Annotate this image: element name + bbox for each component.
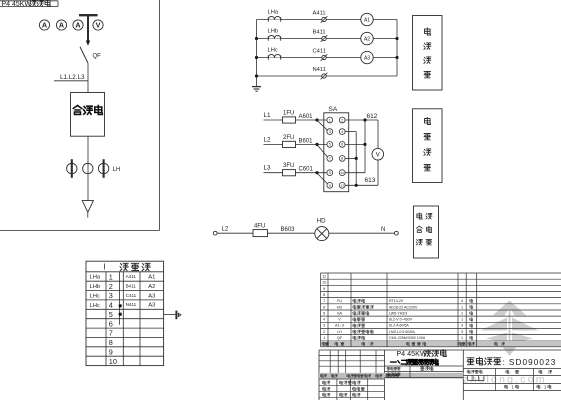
inverter U1 (变频器) — [71, 93, 105, 137]
svg-text:A3: A3 — [364, 56, 370, 62]
table header I 端子排 — [104, 263, 151, 272]
svg-text:3: 3 — [109, 291, 113, 300]
svg-text:6: 6 — [323, 305, 325, 309]
annotation box: 电源合闸指示 — [414, 206, 439, 258]
BOM row 9 — [323, 287, 325, 291]
svg-text:612: 612 — [367, 113, 378, 120]
node L1 — [264, 112, 272, 119]
wire net 612 (contact 2 to voltmeter) — [345, 119, 378, 121]
svg-text:2FU: 2FU — [283, 135, 294, 141]
wire: left common bus of CT secondaries — [256, 20, 258, 87]
wire B411 row — [257, 38, 398, 40]
svg-text:LHb: LHb — [268, 29, 279, 35]
svg-text:7: 7 — [109, 329, 113, 338]
BOM row 1 — [323, 336, 473, 340]
drawing subtitle 一、二次原理接线图 — [391, 359, 439, 365]
svg-text:A1: A1 — [364, 18, 370, 24]
svg-text:QF: QF — [93, 54, 102, 60]
fuse 2FU — [283, 141, 296, 147]
svg-text:9: 9 — [323, 287, 325, 291]
wire A411 row — [257, 19, 398, 21]
svg-text:C411: C411 — [126, 293, 137, 298]
svg-text:V: V — [96, 21, 101, 30]
label N411 — [313, 67, 326, 73]
svg-text:V: V — [338, 318, 341, 322]
label LHb — [268, 29, 279, 35]
wire B603 row — [217, 232, 394, 234]
PE ground (rotated) — [176, 311, 180, 320]
svg-text:A411: A411 — [126, 274, 137, 279]
SA contact pin 5 — [327, 142, 333, 148]
terminal 4 row — [90, 301, 156, 310]
svg-text:4: 4 — [341, 130, 343, 134]
wire C601 — [264, 172, 328, 174]
terminal strip table I 端子排 — [86, 261, 164, 365]
wire A601 — [264, 119, 328, 121]
svg-text:4: 4 — [323, 318, 325, 322]
terminal B411 — [321, 35, 328, 42]
label C601 — [299, 167, 314, 173]
svg-text:5: 5 — [323, 311, 325, 315]
svg-text:11: 11 — [328, 184, 331, 188]
ammeter A — [56, 20, 66, 30]
label A601 — [299, 114, 314, 120]
SA contact pin 8 — [339, 156, 345, 162]
svg-text:V: V — [376, 152, 380, 158]
label LHc — [268, 48, 278, 54]
svg-text:2: 2 — [341, 118, 343, 122]
svg-text:10: 10 — [340, 171, 344, 175]
svg-text:A1: A1 — [148, 275, 155, 281]
SA contact pin 1 — [327, 117, 333, 123]
selector switch SA box — [324, 113, 349, 192]
svg-text:1: 1 — [323, 336, 325, 340]
wire contact 8 — [345, 157, 356, 159]
svg-text:3: 3 — [461, 330, 463, 334]
svg-text:SD090023: SD090023 — [509, 358, 557, 367]
SA contact pin 7 — [327, 156, 333, 162]
svg-text:6: 6 — [341, 143, 343, 147]
node L2 — [222, 227, 229, 233]
svg-text:8: 8 — [109, 338, 113, 347]
svg-text:1: 1 — [461, 336, 463, 340]
ammeter A3 — [361, 51, 373, 63]
terminal N411 — [321, 73, 328, 80]
svg-text:B411: B411 — [313, 30, 326, 36]
wire: vertical 613 bus — [355, 132, 357, 186]
lamp HD — [315, 227, 329, 241]
junction (left bus / C411) — [255, 56, 258, 59]
junction A601 — [315, 118, 318, 121]
drawing title P4 45KW控制柜 — [396, 349, 446, 358]
svg-text:A411: A411 — [313, 11, 326, 17]
svg-text:SA: SA — [337, 311, 343, 315]
svg-text:CM1-225M/3300 100A: CM1-225M/3300 100A — [389, 336, 426, 340]
svg-text:L3: L3 — [264, 165, 272, 172]
svg-text:5: 5 — [109, 310, 113, 319]
svg-text:LH: LH — [113, 167, 121, 173]
CT secondary LHb — [268, 35, 280, 40]
sheet title box (top-left, clipped) — [0, 1, 58, 7]
junction terminal 4 — [119, 304, 122, 307]
svg-text:4FU: 4FU — [254, 223, 265, 229]
watermark text zhulong.com — [463, 374, 547, 386]
label QF — [93, 54, 102, 60]
annotation box: 电压测量 — [413, 109, 443, 183]
label B601 — [299, 138, 314, 144]
svg-text:P4 45KW: P4 45KW — [2, 1, 32, 8]
svg-text:LHc: LHc — [90, 303, 100, 309]
product number 产品编号: SD090023 — [467, 357, 556, 367]
node N — [381, 227, 385, 233]
label 613 — [365, 177, 376, 184]
svg-text:C411: C411 — [313, 49, 326, 55]
svg-text:10: 10 — [109, 357, 117, 366]
ammeter A1 — [361, 13, 373, 25]
terminal 5 row — [109, 310, 113, 319]
svg-text:A3: A3 — [148, 293, 155, 299]
fuse 4FU — [253, 230, 268, 237]
label A411 — [313, 11, 326, 17]
wire net 613 (contact 12 to voltmeter) — [345, 184, 378, 186]
svg-text:LHb: LHb — [90, 284, 101, 290]
label 2FU — [283, 135, 294, 141]
terminal C411 — [321, 54, 328, 61]
ground — [252, 87, 261, 92]
label C411 — [313, 49, 326, 55]
revision table (empty rows) — [319, 350, 385, 373]
junction 613/12 — [355, 184, 358, 187]
node L1.L2.L3 — [54, 74, 88, 81]
feeder wire with arrow — [86, 15, 90, 46]
BOM table grid — [321, 273, 561, 347]
SA contact pin 3 — [327, 129, 333, 135]
CT secondary LHa — [268, 16, 280, 21]
terminal (left) — [213, 231, 217, 235]
CT LH core b — [83, 163, 93, 173]
fuse 1FU — [283, 117, 296, 123]
busbar — [79, 14, 98, 16]
panel enclosure border — [0, 0, 160, 230]
wire C411 row — [257, 57, 398, 59]
BOM row 4 — [323, 318, 473, 322]
wire to load with open arrow — [82, 201, 93, 218]
junction (right bus / A2) — [395, 37, 398, 40]
svg-text:3: 3 — [461, 324, 463, 328]
fuse 3FU — [283, 170, 296, 176]
junction (left bus / B411) — [255, 37, 258, 40]
svg-text:A3: A3 — [148, 303, 155, 309]
title block outer — [319, 350, 561, 400]
wire: right common bus — [396, 20, 398, 77]
svg-text:6L2-A 60/5A: 6L2-A 60/5A — [389, 324, 409, 328]
junction (right bus / A3) — [395, 56, 398, 59]
terminal 3 row — [90, 291, 156, 300]
svg-text:AD16-22 AC220V: AD16-22 AC220V — [389, 305, 418, 309]
svg-text:L2: L2 — [222, 227, 229, 233]
terminal 2 row — [90, 282, 156, 291]
svg-text:3: 3 — [323, 324, 325, 328]
label: P4 45KW控制柜 (clipped) — [2, 0, 51, 8]
svg-text:8: 8 — [323, 293, 325, 297]
label 3FU — [283, 163, 294, 169]
junction C601 — [315, 171, 318, 174]
CT secondary LHc — [268, 54, 280, 59]
svg-text:4: 4 — [109, 301, 113, 310]
wire B601 — [264, 143, 328, 145]
BOM row 3 — [323, 324, 473, 328]
junction 612/2 — [363, 118, 366, 121]
junction 613/8 — [355, 157, 358, 160]
CT LH core a — [67, 159, 77, 178]
BOM row 6 — [323, 305, 473, 309]
wire to PE — [164, 313, 176, 315]
BOM row 7 — [323, 299, 473, 303]
signature rows 设计/校对/审核 — [319, 379, 385, 400]
svg-text:1: 1 — [461, 318, 463, 322]
svg-text:A1~3: A1~3 — [335, 324, 344, 328]
wire (jumper to lower contact) — [317, 120, 328, 130]
SA contact pin 6 — [339, 142, 345, 148]
svg-text:2: 2 — [109, 282, 113, 291]
SA contact pin 4 — [339, 129, 345, 135]
svg-text:LH: LH — [337, 330, 342, 334]
label B603 — [281, 227, 296, 233]
BOM row 5 — [323, 311, 473, 315]
svg-text:LHc: LHc — [268, 48, 278, 54]
SA contact pin 10 — [339, 170, 345, 176]
svg-text:9: 9 — [329, 171, 331, 175]
label B411 — [313, 30, 326, 36]
BOM header row — [322, 342, 504, 345]
svg-text:1: 1 — [461, 305, 463, 309]
voltmeter V — [93, 20, 103, 30]
svg-text:A601: A601 — [299, 114, 314, 120]
BOM row 10 — [322, 281, 326, 285]
svg-text:N411: N411 — [126, 302, 137, 307]
svg-text:10: 10 — [322, 281, 326, 285]
svg-text:L1.L2.L3: L1.L2.L3 — [60, 74, 85, 81]
svg-text:C601: C601 — [299, 167, 314, 173]
svg-text:QF: QF — [337, 336, 343, 340]
terminal (right) — [395, 231, 399, 235]
ammeter A2 — [361, 32, 373, 44]
terminal 7 row — [109, 329, 113, 338]
node L3 — [264, 165, 272, 172]
svg-text:LW5-YH3/3: LW5-YH3/3 — [389, 311, 407, 315]
svg-text:N: N — [381, 227, 385, 233]
terminal 1 row — [90, 272, 156, 281]
title block right cells 阶段标记/重量/比例 — [463, 369, 561, 391]
label 4FU — [254, 223, 265, 229]
svg-text:HD: HD — [337, 305, 343, 309]
junction 612/6 — [363, 143, 366, 146]
terminal 8 row — [109, 338, 113, 347]
svg-text:LHa: LHa — [268, 10, 279, 16]
svg-text:1: 1 — [461, 311, 463, 315]
wire contact 4 — [345, 131, 356, 133]
svg-text:613: 613 — [365, 177, 376, 184]
svg-text:A: A — [75, 21, 80, 30]
svg-text:6L2-V 0~450V: 6L2-V 0~450V — [389, 318, 413, 322]
title sub-cells 产品型号/图号 — [385, 366, 464, 378]
label LHa — [268, 10, 279, 16]
wire to voltmeter — [377, 120, 379, 185]
svg-text:9: 9 — [109, 347, 113, 356]
terminal A411 — [321, 16, 328, 23]
svg-text:B603: B603 — [281, 227, 296, 233]
svg-text:A: A — [59, 21, 64, 30]
svg-text:11: 11 — [322, 275, 326, 279]
annotation box: 电流测量 — [413, 16, 443, 91]
SA contact pin 11 — [327, 182, 333, 188]
BOM row 8 — [323, 293, 325, 297]
ammeter A — [39, 20, 49, 30]
SA contact pin 2 — [339, 117, 345, 123]
wire (jumper to lower contact) — [317, 145, 328, 157]
svg-text:A2: A2 — [148, 284, 155, 290]
label 1FU — [283, 111, 294, 117]
wire — [87, 63, 89, 92]
breaker QF — [80, 47, 88, 63]
wire contact 6 — [345, 143, 365, 145]
svg-text:N411: N411 — [313, 67, 326, 73]
wire contact 10 — [345, 172, 365, 174]
svg-text:L1: L1 — [264, 112, 272, 119]
svg-text:7: 7 — [323, 299, 325, 303]
svg-text:6: 6 — [109, 319, 113, 328]
svg-text:4: 4 — [461, 299, 463, 303]
svg-text:5: 5 — [329, 143, 331, 147]
svg-text:1FU: 1FU — [283, 111, 294, 117]
svg-text:3FU: 3FU — [283, 163, 294, 169]
wire N411 row — [257, 75, 398, 77]
SA contact pin 9 — [327, 170, 333, 176]
label 612 — [367, 113, 378, 120]
SA contact pin 12 — [339, 182, 345, 188]
svg-text:LHc: LHc — [90, 294, 100, 300]
svg-text:A: A — [42, 21, 47, 30]
svg-text::: : — [503, 357, 505, 367]
svg-text:L2: L2 — [264, 136, 272, 143]
BOM row 2 — [323, 330, 473, 334]
svg-text:8: 8 — [341, 157, 343, 161]
svg-text:1: 1 — [109, 272, 113, 281]
svg-text:12: 12 — [340, 184, 344, 188]
wire: terminal jumper bus — [119, 272, 121, 325]
revision header band 标记 处数 更改文件号 签字 日期 — [319, 373, 463, 379]
CT LH core c — [98, 159, 108, 178]
svg-text:2: 2 — [323, 330, 325, 334]
node L2 — [264, 136, 272, 143]
voltmeter V — [372, 148, 384, 160]
BOM row 11 — [322, 275, 326, 279]
label HD — [317, 218, 326, 224]
wire — [87, 136, 89, 200]
svg-text:HD: HD — [317, 218, 326, 224]
label LH — [113, 167, 121, 173]
label SA — [329, 106, 338, 113]
terminal 9 row — [109, 347, 113, 356]
wire: vertical 612 bus — [364, 120, 366, 173]
svg-text:FU: FU — [337, 299, 342, 303]
ammeter A — [73, 20, 83, 30]
terminal 10 row — [109, 357, 117, 366]
svg-text:LHa: LHa — [90, 275, 101, 281]
terminal 6 row — [109, 319, 113, 328]
wire (jumper to lower contact) — [317, 173, 328, 184]
svg-text:B411: B411 — [126, 284, 137, 289]
svg-text:P4 45KW: P4 45KW — [396, 349, 427, 358]
svg-text:LMZ1-0.5 60/5A: LMZ1-0.5 60/5A — [389, 330, 415, 334]
watermark logo (zhulong) — [481, 301, 539, 357]
svg-text:RT14-20: RT14-20 — [389, 299, 403, 303]
svg-text:A2: A2 — [364, 37, 370, 43]
junction (left bus / N411) — [255, 74, 258, 77]
svg-text:B601: B601 — [299, 138, 314, 144]
svg-text:SA: SA — [329, 106, 338, 113]
svg-text:7: 7 — [329, 157, 331, 161]
junction terminal 5 — [119, 313, 122, 316]
svg-text:I: I — [104, 263, 106, 272]
svg-text:3: 3 — [329, 130, 331, 134]
svg-text:1: 1 — [329, 118, 331, 122]
junction B601 — [315, 143, 318, 146]
